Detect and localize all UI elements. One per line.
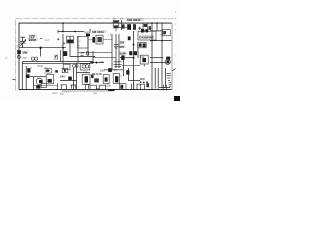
svg-text:140: 140 [140,55,145,59]
svg-text:100k: 100k [105,84,111,88]
svg-text:WV: WV [140,77,145,81]
svg-text:4n7: 4n7 [45,38,50,42]
svg-text:100n: 100n [29,38,37,42]
svg-text:nap: nap [93,92,98,95]
svg-text:47k: 47k [119,45,124,49]
svg-text:2x2k: 2x2k [120,51,127,55]
svg-text:10k: 10k [22,51,27,55]
svg-text:10u: 10u [44,67,49,70]
svg-text:CA3080AE: CA3080AE [139,36,154,40]
svg-text:= xx: = xx [160,34,166,37]
svg-text:OK: OK [100,60,104,64]
svg-text:AB1 8B41: AB1 8B41 [127,18,141,22]
svg-text:AA: AA [84,70,88,74]
svg-text:ws/m: ws/m [52,92,58,95]
svg-text:x x x x x: x x x x x [62,91,71,94]
svg-text:10nF: 10nF [37,64,43,68]
svg-text:zup: zup [22,57,27,60]
svg-text:150: 150 [100,68,105,72]
svg-text:c kk: c kk [108,34,113,37]
svg-text:UNI: UNI [84,31,89,35]
svg-text:240: 240 [60,74,65,78]
svg-text:1M 100n: 1M 100n [92,30,104,34]
